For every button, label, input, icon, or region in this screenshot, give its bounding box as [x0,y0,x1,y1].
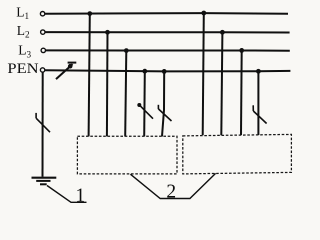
wire bus L1 [45,12,288,15]
junction dot PEN-N [142,69,147,74]
junction dot L2-right [220,30,225,35]
svg-text:1: 1 [75,186,85,207]
wire bus L3 [46,49,290,51]
wire drop L2 to right box [221,32,222,135]
junction dot PEN-right [256,69,261,74]
wire bus PEN [45,70,290,71]
wire drop L1 to left box [89,14,90,137]
terminal L1 [40,12,44,16]
N conductor marker [137,103,153,119]
ground [32,178,57,185]
terminal L3 [41,48,45,52]
wire bus L2 [45,31,289,33]
PE conductor marker (right box) [253,105,266,123]
svg-text:2: 2 [166,182,176,203]
wire drop PEN to right box [257,71,259,135]
wire drop L3 to right box [240,50,243,135]
wire drop L3 to left box [125,51,126,137]
junction dot L1-right [201,11,206,16]
junction dot L3-left [124,48,129,53]
terminal L2 [41,30,45,34]
junction dot L2-left [105,30,110,35]
leader line to label 2 [130,173,215,198]
wire drop L2 to left box [106,32,109,136]
junction dot L3-right [239,48,244,53]
PE conductor marker (left box) [158,105,171,121]
ground electrode wire [42,72,44,177]
wire drop PE to left box [162,71,164,136]
leader line to label 1 [47,186,87,203]
junction dot PEN-PE [162,69,167,74]
wire drop L1 to right box [203,13,204,135]
svg-text:PEN: PEN [7,61,39,77]
PE conductor marker on ground wire [36,113,50,132]
wire drop N to left box [143,71,146,136]
terminal PEN [40,68,44,72]
consumer box 2 (right) [183,134,292,174]
PEN conductor marker on feeder [56,63,76,80]
junction dot L1-left [87,11,92,16]
consumer box 2 (left) [77,136,177,174]
